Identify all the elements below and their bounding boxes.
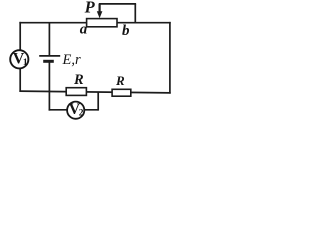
wire V2 branch bottom <box>49 109 99 111</box>
wire battery bottom lead continuing to V2 branch <box>48 61 50 110</box>
svg-text:b: b <box>122 23 130 39</box>
voltmeter V1 circle <box>10 50 28 68</box>
potentiometer P body <box>87 19 117 27</box>
battery E,r long plate <box>39 55 60 57</box>
wire battery top lead <box>48 23 50 56</box>
wire wiper bypass horizontal <box>99 3 136 5</box>
svg-text:R: R <box>73 72 84 88</box>
wire bottom <box>19 91 170 93</box>
svg-text:E,r: E,r <box>62 52 81 68</box>
voltmeter V2 circle <box>67 102 84 119</box>
wire V2 branch right riser <box>97 92 99 111</box>
battery E,r short thick plate <box>43 60 54 63</box>
svg-text:R: R <box>115 73 125 88</box>
wire right border <box>169 22 171 94</box>
wire wiper bypass right drop to node b side <box>134 4 136 23</box>
svg-text:P: P <box>84 0 96 17</box>
wire left border through V1 <box>19 22 21 92</box>
svg-text:a: a <box>80 22 88 38</box>
potentiometer P wiper arrowhead <box>97 11 103 18</box>
resistor R right body <box>112 89 131 96</box>
resistor R left body <box>66 88 86 96</box>
wire top (node a to top-right corner) <box>19 22 170 24</box>
potentiometer P wiper stem <box>98 4 100 13</box>
